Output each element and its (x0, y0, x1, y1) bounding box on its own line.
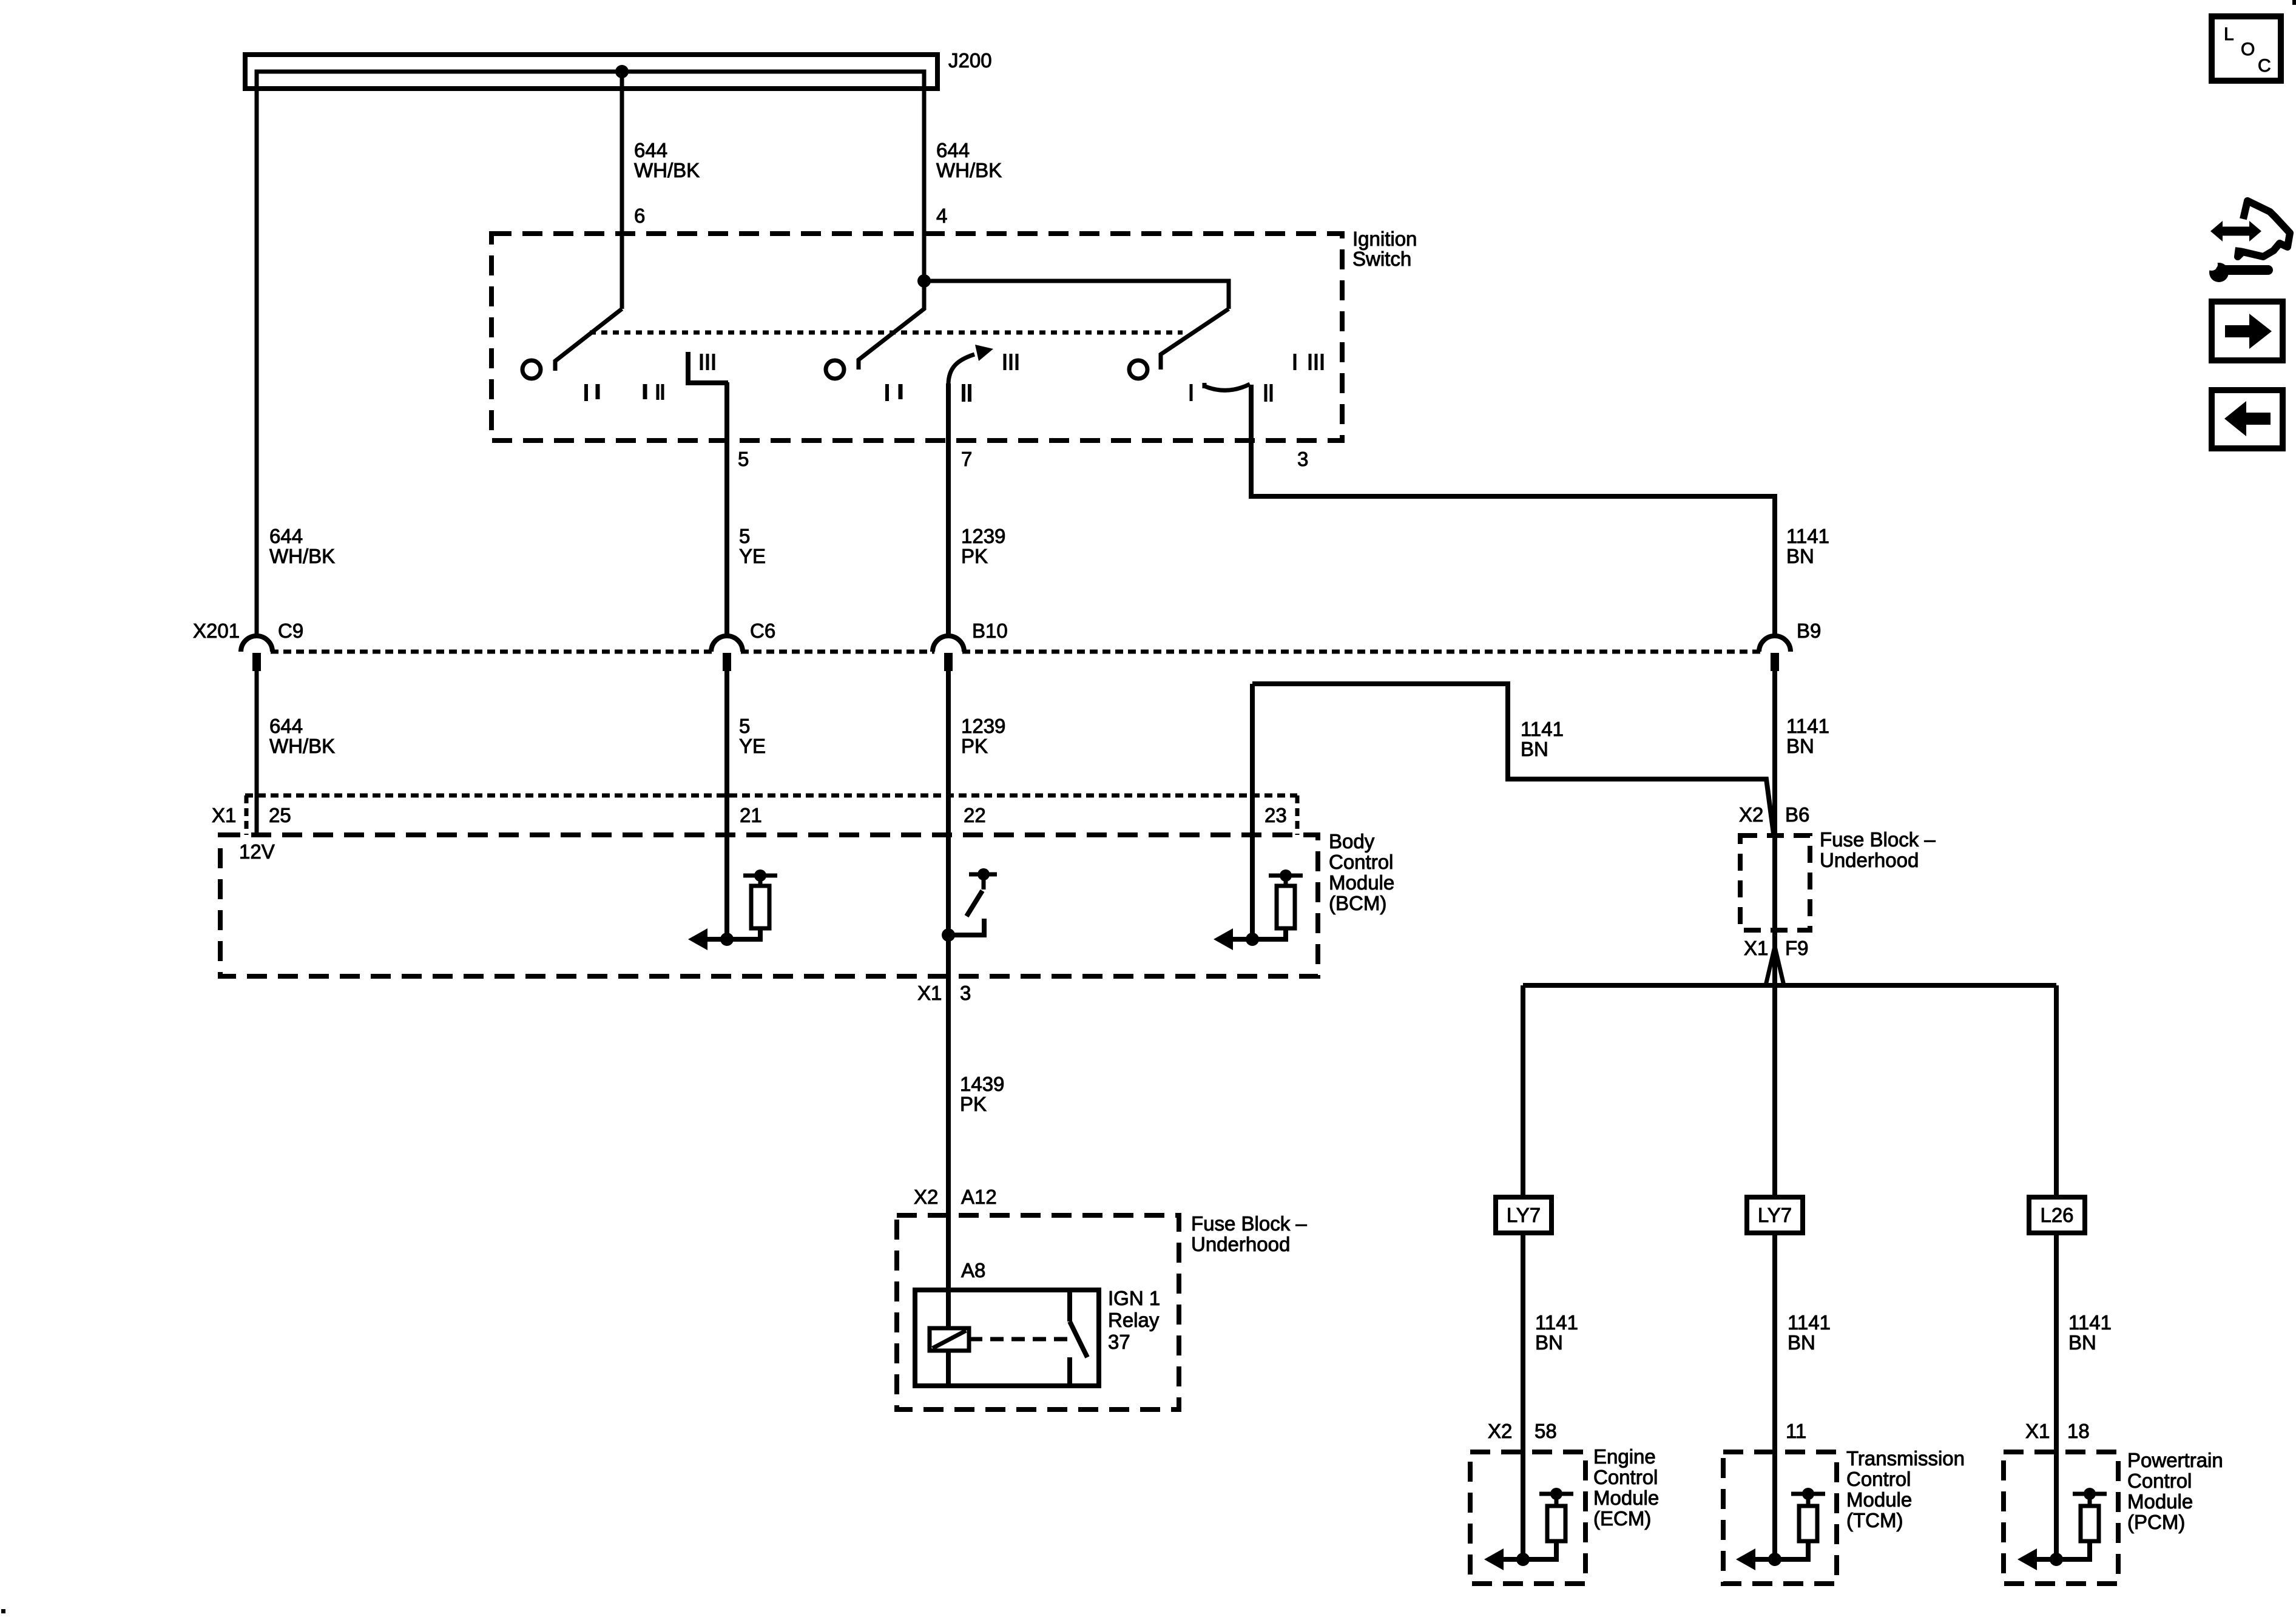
ignition switch mechanical linkage (dotted) (590, 331, 1183, 335)
TCM pin 11 terminal junction (1802, 1488, 1814, 1500)
engine option LY7 (ECM branch) box (1496, 1197, 1551, 1233)
pole C position II tick marks (1264, 384, 1268, 402)
svg-text:25: 25 (269, 804, 291, 826)
legend LOC box (2212, 16, 2281, 81)
pole C fixed contact curve to pin 3 (1204, 383, 1250, 390)
svg-text:X201: X201 (193, 619, 240, 642)
svg-text:644: 644 (269, 525, 303, 547)
ECM pin 58 resistor (1547, 1506, 1565, 1541)
BCM pin 22 junction (942, 928, 955, 942)
Fuse Block Underhood dashed box (B6/F9) (1740, 836, 1810, 930)
svg-text:X2: X2 (914, 1186, 938, 1208)
svg-text:O: O (2241, 39, 2255, 59)
BCM pin 21 resistor top lead (758, 876, 763, 886)
Transmission Control Module dashed box (1723, 1452, 1837, 1584)
svg-text:644: 644 (269, 715, 303, 737)
svg-text:BN: BN (1521, 738, 1548, 760)
svg-text:PK: PK (960, 1093, 987, 1115)
PCM pin 18: internal circuit (arrow, junction, resistor) (2017, 1488, 2107, 1570)
ignition switch dashed box (491, 234, 1342, 441)
svg-text:1141: 1141 (1521, 718, 1564, 740)
BCM pin 22 switch stub (982, 874, 986, 890)
svg-text:1141: 1141 (1786, 525, 1829, 547)
pole A position II tick marks (584, 384, 588, 401)
wire 1141 BN from L26 to PCM pin 18 (2054, 1233, 2059, 1559)
ignition switch pole C movable contact arm (1161, 309, 1229, 370)
svg-text:644: 644 (936, 139, 970, 161)
svg-text:18: 18 (2067, 1420, 2090, 1442)
svg-text:Powertrain: Powertrain (2127, 1449, 2223, 1471)
TCM pin 11 internal wire (1754, 1541, 1808, 1559)
BCM pin 23 terminal bar (1269, 874, 1303, 878)
connector X201 terminal C6 (711, 636, 743, 652)
ECM pin 58 terminal bar (1539, 1492, 1573, 1496)
svg-text:Fuse Block –: Fuse Block – (1820, 828, 1936, 851)
svg-text:1141: 1141 (2068, 1311, 2112, 1334)
engine option LY7 (TCM branch) box (1747, 1197, 1803, 1233)
wire 1141 BN branch to PCM (2054, 985, 2059, 1197)
svg-text:BN: BN (1535, 1331, 1563, 1354)
svg-text:WH/BK: WH/BK (634, 159, 700, 181)
connector X201 terminal C9 (241, 636, 272, 652)
svg-text:PK: PK (961, 735, 988, 757)
svg-text:3: 3 (960, 982, 971, 1004)
svg-text:7: 7 (961, 448, 972, 470)
wire 1141 BN branch to ECM (1521, 985, 1525, 1197)
svg-text:Switch: Switch (1352, 248, 1411, 270)
svg-text:Control: Control (1593, 1466, 1658, 1488)
svg-text:12V: 12V (239, 840, 275, 863)
ignition switch pole A movable contact arm (from pin 6) (555, 309, 622, 371)
svg-text:LY7: LY7 (1758, 1204, 1792, 1226)
ECM pin 58: internal circuit (arrow, junction, resistor) (1484, 1488, 1573, 1570)
ECM pin 58 continuation arrowhead (1484, 1548, 1504, 1570)
TCM pin 11 junction (1768, 1553, 1781, 1566)
svg-text:11: 11 (1786, 1420, 1806, 1442)
wire 644 WH/BK from J200 to ignition switch pin 4 (922, 72, 927, 281)
svg-text:X1: X1 (212, 804, 236, 826)
splice pack J200 outline (245, 55, 937, 89)
svg-text:Control: Control (1846, 1468, 1911, 1490)
pole A position III tick marks (700, 354, 703, 370)
TCM pin 11: internal circuit (arrow, junction, resistor) (1736, 1488, 1825, 1570)
svg-text:YE: YE (739, 545, 766, 567)
svg-text:WH/BK: WH/BK (936, 159, 1002, 181)
svg-text:Engine: Engine (1593, 1445, 1656, 1468)
ECM pin 58 internal wire (1502, 1541, 1556, 1559)
svg-text:B10: B10 (972, 619, 1008, 642)
svg-text:1141: 1141 (1535, 1311, 1578, 1334)
svg-text:Ignition: Ignition (1352, 228, 1417, 250)
pole A position I II tick marks (643, 384, 647, 399)
svg-text:F9: F9 (1785, 937, 1809, 959)
wire 644 WH/BK from J200 left end down to X201 C9 (255, 89, 259, 638)
svg-text:Body: Body (1329, 830, 1375, 852)
wire ignition pin 3 to X201 B9 (1141 BN) (1251, 385, 1775, 638)
pole A position III fixed contact to pin 5 (688, 352, 728, 383)
ECM pin 58 terminal junction (1550, 1488, 1562, 1500)
wire 1141 BN from branch down to BCM pin 23 (1250, 684, 1255, 939)
Engine Control Module dashed box (1470, 1452, 1585, 1584)
Fuse Block Underhood dashed box (relay) (897, 1215, 1179, 1409)
connector X201 terminal B9 (1759, 636, 1791, 652)
IGN 1 relay contact common terminal (1067, 1290, 1072, 1322)
page corner mark bottom left (1, 1609, 5, 1613)
IGN 1 relay coil (930, 1328, 969, 1351)
diagnostic connector icon right arrowhead (2249, 221, 2261, 241)
svg-text:5: 5 (739, 715, 750, 737)
svg-text:37: 37 (1108, 1331, 1130, 1353)
svg-text:1239: 1239 (961, 525, 1005, 547)
svg-text:58: 58 (1535, 1420, 1557, 1442)
svg-text:(ECM): (ECM) (1593, 1507, 1651, 1530)
junction on J200 bus (wire 6 tap) (615, 65, 629, 78)
svg-text:1239: 1239 (961, 715, 1005, 737)
svg-text:X2: X2 (1488, 1420, 1512, 1442)
svg-text:B6: B6 (1785, 803, 1809, 826)
svg-text:L26: L26 (2040, 1204, 2073, 1226)
diagnostic connector icon outline (2238, 201, 2290, 257)
wire ignition pin 5 to X201 C6 (724, 382, 729, 638)
BCM connector X1 dotted line (245, 794, 1297, 798)
connector X201 dashed line (271, 650, 713, 654)
svg-text:(TCM): (TCM) (1846, 1509, 1903, 1531)
svg-text:1141: 1141 (1788, 1311, 1831, 1334)
svg-text:(BCM): (BCM) (1329, 892, 1386, 914)
IGN 1 relay linkage (dashed) (969, 1337, 1068, 1342)
BCM pin 21 continuation arrowhead (688, 928, 707, 950)
wire 644 WH/BK from C9 to BCM pin 25 (255, 671, 259, 835)
diagnostic connector icon left arrowhead (2210, 221, 2223, 241)
svg-text:A12: A12 (961, 1186, 997, 1208)
IGN 1 relay box (915, 1290, 1099, 1386)
pole B position II tick marks right of pin 7 (962, 384, 965, 402)
BCM pin 22 switch terminal junction (977, 868, 990, 880)
forward arrow (2225, 325, 2251, 337)
svg-text:PK: PK (961, 545, 988, 567)
wire 1141 BN from LY7 to TCM pin 11 (1772, 1233, 1777, 1559)
pole C position I III tick marks (1294, 354, 1297, 370)
svg-text:Module: Module (1846, 1488, 1912, 1511)
svg-text:22: 22 (964, 804, 986, 826)
svg-text:X1: X1 (1744, 937, 1768, 959)
PCM pin 18 terminal bar (2073, 1492, 2107, 1496)
PCM pin 18 internal wire (2036, 1541, 2090, 1559)
wire 1141 BN distribution bus (1523, 983, 2056, 988)
svg-text:IGN 1: IGN 1 (1108, 1287, 1160, 1309)
svg-text:5: 5 (738, 448, 749, 470)
svg-text:Underhood: Underhood (1820, 849, 1919, 871)
svg-text:YE: YE (739, 735, 766, 757)
ignition switch pole A pivot contact (522, 360, 541, 379)
ECM pin 58 resistor top lead (1555, 1494, 1559, 1506)
page corner mark top right (2292, 0, 2296, 5)
BCM pin 23 continuation arrowhead (1214, 928, 1233, 950)
BCM pin 21 resistor (751, 886, 769, 928)
svg-text:L: L (2224, 24, 2234, 44)
svg-text:WH/BK: WH/BK (269, 545, 335, 567)
back arrow (2244, 413, 2271, 425)
pole C position I tick marks (1190, 384, 1193, 401)
BCM pin 21 internal wire (706, 928, 760, 939)
svg-text:X2: X2 (1739, 803, 1763, 826)
ignition switch pole B pivot contact (826, 360, 844, 379)
BCM pin 22 internal switch fixed contact bracket (948, 919, 984, 935)
wire 1141 BN from LY7 to ECM pin 58 (1521, 1233, 1525, 1559)
PCM pin 18 resistor (2081, 1506, 2099, 1541)
BCM pin 21 terminal bar (743, 874, 777, 878)
svg-text:Relay: Relay (1108, 1309, 1160, 1331)
forward arrow box (2212, 302, 2283, 360)
wrench icon handle (2221, 265, 2268, 275)
BCM pin 23 junction (1246, 933, 1259, 946)
svg-text:X1: X1 (2025, 1420, 2050, 1442)
svg-text:LY7: LY7 (1507, 1204, 1541, 1226)
IGN 1 relay coil slash (933, 1331, 966, 1348)
BCM pin 21 junction (720, 933, 734, 946)
BCM pin 22 switch movable arm (open) (967, 891, 982, 916)
TCM pin 11 resistor (1799, 1506, 1817, 1541)
BCM connector X1 left stub (245, 795, 249, 835)
pole B position II tick marks (885, 384, 889, 401)
BCM pin 23: internal circuit (arrow, junction, resistor) (1214, 869, 1303, 950)
IGN 1 relay contact blade (open) (1070, 1322, 1087, 1357)
wire 644 WH/BK from J200 to ignition switch pin 6 (620, 72, 624, 309)
PCM pin 18 resistor top lead (2088, 1494, 2092, 1506)
PCM pin 18 continuation arrowhead (2017, 1548, 2037, 1570)
svg-text:6: 6 (634, 204, 645, 227)
svg-text:(PCM): (PCM) (2127, 1511, 2185, 1533)
BCM pin 23 internal wire (1232, 928, 1286, 939)
wire 5 YE from C6 to BCM pin 21 (724, 671, 729, 939)
pole B position III tick marks (1004, 354, 1007, 370)
Body Control Module dashed box (220, 835, 1318, 976)
svg-text:5: 5 (739, 525, 750, 547)
back arrow box (2212, 390, 2283, 448)
junction on wire 4 inside ignition switch (917, 274, 931, 288)
svg-text:B9: B9 (1797, 619, 1821, 642)
svg-text:BN: BN (1786, 545, 1814, 567)
TCM pin 11 resistor top lead (1806, 1494, 1811, 1506)
svg-text:3: 3 (1297, 448, 1308, 470)
svg-text:BN: BN (1788, 1331, 1815, 1354)
svg-text:A8: A8 (961, 1259, 985, 1281)
svg-text:C: C (2258, 56, 2271, 76)
BCM connector X1 right stub (1295, 795, 1300, 835)
splice fan right (1775, 947, 1784, 985)
ignition switch pole C pivot contact (1129, 360, 1147, 379)
wire 1141 BN from B9 to fuse block B6 (1772, 671, 1777, 930)
Powertrain Control Module dashed box (2004, 1452, 2118, 1584)
wrench icon head (2209, 263, 2229, 282)
svg-text:Control: Control (1329, 851, 1393, 873)
svg-text:J200: J200 (948, 49, 992, 72)
wire 1439 PK from BCM X1 pin 3 to fuse block A12 and IGN 1 relay coil (946, 935, 951, 1386)
svg-text:Module: Module (2127, 1490, 2193, 1513)
svg-text:23: 23 (1264, 804, 1287, 826)
svg-text:1141: 1141 (1786, 715, 1829, 737)
BCM pin 23 resistor (1277, 886, 1295, 928)
ignition switch pole B movable contact arm (859, 281, 924, 370)
engine option L26 (PCM branch) box (2029, 1197, 2085, 1233)
TCM pin 11 terminal bar (1791, 1492, 1825, 1496)
svg-text:Fuse Block –: Fuse Block – (1191, 1212, 1307, 1235)
splice pack J200 bus bar (257, 72, 924, 97)
wire 1141 BN from F9 down to splice (1772, 930, 1777, 1197)
PCM pin 18 terminal junction (2084, 1488, 2096, 1500)
PCM pin 18 junction (2050, 1553, 2063, 1566)
TCM pin 11 continuation arrowhead (1736, 1548, 1755, 1570)
svg-text:4: 4 (936, 204, 947, 227)
diagnostic connector icon double arrow shaft (2218, 227, 2254, 236)
svg-text:21: 21 (740, 804, 762, 826)
connector X201 terminal B10 (933, 636, 964, 652)
BCM pin 21: internal circuit (arrow, junction, resistor) (688, 869, 777, 950)
svg-text:1439: 1439 (960, 1073, 1004, 1095)
svg-text:WH/BK: WH/BK (269, 735, 335, 757)
ignition switch internal link wire from pin 4 junction to pole C (924, 281, 1229, 309)
BCM pin 22 switch terminal bar (969, 873, 997, 877)
ECM pin 58 junction (1516, 1553, 1530, 1566)
wire ignition pin 7 to X201 B10 (946, 383, 951, 638)
IGN 1 relay contact lower terminal (1067, 1357, 1072, 1386)
svg-text:C9: C9 (278, 619, 303, 642)
BCM pin 21 terminal junction (754, 869, 766, 882)
svg-text:BN: BN (1786, 735, 1814, 757)
svg-text:Underhood: Underhood (1191, 1233, 1290, 1255)
svg-text:Module: Module (1593, 1487, 1659, 1509)
svg-text:BN: BN (2068, 1331, 2096, 1354)
svg-text:644: 644 (634, 139, 667, 161)
splice fan left (1766, 947, 1775, 985)
svg-text:C6: C6 (750, 619, 775, 642)
wire 1239 PK from B10 to BCM pin 22 (946, 671, 951, 935)
svg-text:Transmission: Transmission (1846, 1447, 1965, 1470)
svg-text:Control: Control (2127, 1470, 2192, 1492)
svg-text:Module: Module (1329, 871, 1394, 894)
BCM pin 23 resistor top lead (1284, 876, 1288, 886)
BCM pin 23 terminal junction (1280, 869, 1292, 882)
svg-text:X1: X1 (917, 982, 942, 1004)
wire 1141 BN branch from BCM pin 23 to fuse block B6 (1252, 684, 1774, 834)
pole B position III wiper arrow to pin 7 (948, 354, 974, 385)
